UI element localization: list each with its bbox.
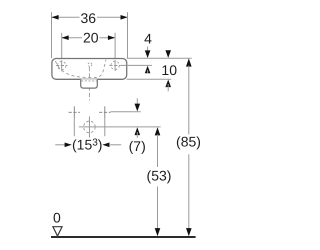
hidden basin bottom across trap box (dashed) [81,80,96,82]
extension line 20 right [114,33,116,61]
datum triangle symbol [53,227,62,236]
washbasin body outline [52,59,127,80]
extension line A: basin top edge extended right [127,57,192,59]
dimension 20 line [62,37,115,39]
extension line right fixing down [104,118,106,136]
dimension 36 right arrowhead [121,15,128,20]
dimension 20 left arrowhead [62,35,69,40]
water outlet crosshair vertical [88,116,90,137]
dimension (15_3) line left segment + arrow [55,143,72,148]
dimension 4 lower arrow (up) [145,66,151,74]
dimension (85) vertical line upper part + top arrow [186,58,192,134]
svg-text:(53): (53) [147,167,172,183]
dimension (15_3) right arrow + line segment [102,143,121,148]
dimension 36 left arrowhead [51,15,58,20]
dimension 36 line [52,16,128,18]
dimension 20 label [82,30,100,46]
svg-text:(85): (85) [176,133,201,149]
drain trap box under basin [81,79,98,88]
overflow hole (small dashed circle) [88,63,92,67]
right fixing point crosshair [99,106,110,118]
drain centerline (dashed) [88,67,90,101]
fixing level line extended right [111,111,141,113]
dimension 4 upper arrow (down) [145,47,151,59]
water outlet symbol dashed circle [84,121,96,133]
extension line 20 left [61,33,63,61]
floor line [51,236,196,238]
svg-text:20: 20 [83,30,99,46]
extension line B: tap hole axis extended right [121,64,152,66]
extension line C: basin bottom edge extended right [127,78,172,80]
dimension (53) vertical line upper part [155,127,161,167]
left tap hole crosshair [56,60,67,71]
dimension (7) lower arrow (up) [135,127,141,138]
outlet level line extended right [79,126,161,128]
dimension 10 upper arrow (down) [165,50,171,58]
left fixing point crosshair [69,106,80,118]
dimension (53) vertical line lower part + bottom arrow [155,187,161,237]
svg-text:4: 4 [144,30,152,46]
extension line 36 left [51,12,53,58]
dimension 20 right arrowhead [108,35,115,40]
extension line left fixing down [73,118,75,136]
svg-text:(153): (153) [72,137,102,153]
basin hidden bowl contour (dashed) [56,60,107,78]
dimension (7) upper arrow (down) [135,98,141,111]
dimension 10 lower arrow (up) [165,80,171,92]
svg-text:10: 10 [161,62,177,78]
right tap hole crosshair [109,60,120,71]
svg-text:36: 36 [81,10,97,26]
extension line 36 right [127,12,129,58]
dimension 36 label [80,10,98,26]
svg-text:(7): (7) [129,138,146,154]
dimension (85) vertical line lower part + bottom arrow [186,154,192,236]
svg-text:0: 0 [53,210,61,226]
